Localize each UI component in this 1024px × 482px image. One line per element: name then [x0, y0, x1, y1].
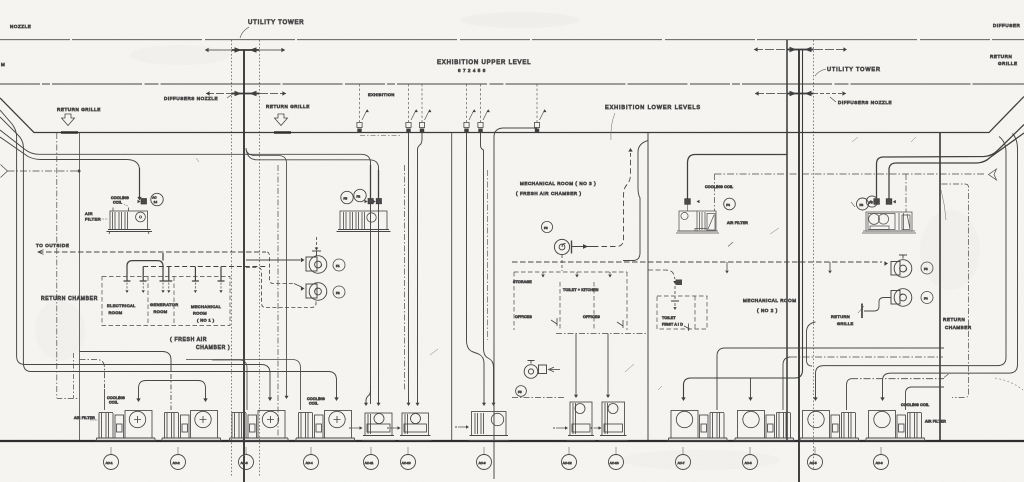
fan F6 dashed exhaust duct up through roof: [593, 153, 631, 247]
svg-text:COOLING: COOLING: [307, 397, 325, 401]
branch dashed line to toilet first aid: [648, 270, 675, 279]
dash-dot vertical x=484 upper: [487, 170, 489, 340]
fan F1 with housing: [306, 251, 327, 273]
fan F6 intake dashed stub from rooms: [561, 255, 563, 271]
svg-text:F2: F2: [357, 195, 361, 199]
fan F4 outlet duct down: [807, 322, 816, 366]
diffuser assembly at x=359.5: riser, box, arrow: [359, 84, 361, 122]
utility tower 1 center duct: [243, 50, 245, 482]
svg-text:F5: F5: [518, 390, 522, 394]
utility tower 1 left edge: [231, 40, 233, 477]
svg-text:F1: F1: [336, 264, 340, 268]
svg-text:DIFFUSERS NOZZLE: DIFFUSERS NOZZLE: [164, 96, 218, 101]
svg-text:AC-9: AC-9: [479, 461, 486, 465]
AC-9 supply duct from diffuser x=480.5: [481, 133, 494, 403]
upper AHU 4 inlet squares: [874, 199, 880, 205]
tower 2 lower crossbar with nozzle arrows: [755, 91, 846, 97]
partition wall x=648: [647, 133, 649, 441]
svg-text:14: 14: [154, 200, 158, 204]
outside air dash-dot line left with diamond arrow: [8, 170, 79, 172]
svg-text:AC-13: AC-13: [610, 461, 619, 465]
upper AHU AC-3r: cabinet: [676, 211, 719, 233]
toilet first aid dashed room: [657, 296, 707, 329]
header S5 to AC-3 filter: [212, 360, 247, 410]
svg-text:RETURN: RETURN: [943, 317, 965, 322]
AHU AC-2: cabinet, filter, coil, fan: [161, 411, 222, 441]
svg-text:MECHANICAL ROOM ( NO 3 ): MECHANICAL ROOM ( NO 3 ): [520, 181, 596, 186]
header R7 to AC-6 inlet: [906, 387, 945, 410]
room supply header (solid U with tee): [127, 261, 163, 281]
svg-text:GENERATOR: GENERATOR: [150, 302, 179, 307]
fan F5 tag: [516, 386, 527, 397]
room supply dashed header: [143, 266, 268, 268]
AHU AC-6: cabinet, fan, coil, filter: [865, 411, 926, 441]
header R2 dash-dot to AC-8 inlet: [790, 356, 943, 358]
AHU AC-1: cabinet, filter, coil, fan: [96, 411, 157, 441]
upper AHU AC-1: cabinet: [107, 208, 153, 235]
fan F3 with housing: [891, 255, 912, 277]
svg-text:M: M: [1, 62, 5, 67]
svg-text:OFFICES: OFFICES: [583, 315, 600, 319]
svg-text:F4: F4: [924, 297, 928, 301]
offices / toilet room dashed partitions: [514, 271, 627, 273]
diffuser assembly at x=537: riser, box, arrow: [536, 84, 538, 122]
return grille bar: [861, 304, 863, 319]
fan F6 tag: [541, 221, 552, 232]
svg-text:AIR FILTER: AIR FILTER: [925, 420, 946, 424]
svg-text:ELECTRICAL: ELECTRICAL: [107, 303, 136, 308]
right edge pencil leader: [941, 190, 946, 220]
fan F4 intake from return grille: [864, 298, 891, 312]
svg-text:TO OUTSIDE: TO OUTSIDE: [36, 243, 69, 248]
exhaust duct solid companion: [623, 141, 648, 261]
AC-12 supply drop: [575, 334, 577, 396]
svg-text:COIL: COIL: [113, 201, 122, 205]
svg-text:AC-2: AC-2: [173, 461, 180, 465]
svg-text:( FRESH AIR: ( FRESH AIR: [170, 337, 207, 343]
svg-text:OFFICES: OFFICES: [515, 315, 532, 319]
return chamber right dashed wall: [942, 184, 969, 398]
header R3 to AC-5 fan: [816, 137, 1007, 399]
AC-10 supply duct from diffuser x=422: [418, 133, 423, 403]
svg-text:UTILITY TOWER: UTILITY TOWER: [248, 20, 304, 26]
upper AHU 3 tag circle: [724, 198, 736, 210]
fan F4 tag: [921, 292, 933, 304]
partition wall x=451: [451, 133, 453, 441]
svg-text:TOILET + KITCHEN: TOILET + KITCHEN: [563, 288, 599, 292]
main dashed line to fan F3: [512, 261, 882, 263]
AHU AC-5: cabinet, fan, coil, filter: [799, 411, 860, 441]
lower level ceiling with sloped ends: [0, 97, 1024, 133]
fresh air chamber rooms dashed outline: [102, 277, 230, 326]
svg-text:MECHANICAL: MECHANICAL: [191, 304, 222, 309]
svg-text:F4: F4: [726, 203, 730, 207]
upper AHU AC-2: cabinet: [337, 211, 391, 232]
heavy feed segments into upper AHU 2: [371, 165, 379, 198]
utility tower 2 center duct: [798, 50, 800, 482]
dash-dot vertical x=278: [277, 165, 279, 437]
svg-text:( NO 2 ): ( NO 2 ): [757, 308, 778, 313]
AHU AC-8: cabinet, fan, coil, filter: [734, 411, 795, 441]
header R1 to AC-7 inlet: [717, 348, 944, 410]
svg-text:AC-11: AC-11: [365, 461, 374, 465]
svg-text:TOILET: TOILET: [662, 316, 676, 320]
svg-text:COOLING: COOLING: [111, 196, 129, 200]
svg-text:COIL: COIL: [309, 402, 318, 406]
to outside dashed exhaust line: [38, 251, 266, 253]
AC-11 supply pair lower ends: [366, 385, 371, 403]
roof line (upper level top): [0, 39, 1024, 41]
upper AHU 1 tag circle: [151, 193, 163, 205]
svg-text:CHAMBER ): CHAMBER ): [196, 345, 230, 351]
dash-dot vertical x=404.5: [404, 165, 406, 390]
return chamber left wall: [79, 133, 81, 441]
svg-text:AIR: AIR: [85, 211, 93, 216]
header R5 dash-dot to AC-5 inlet: [851, 378, 944, 380]
upper AHU 2 inlet squares: [368, 199, 373, 204]
tower 1 upper crossbar with nozzle arrows: [205, 47, 285, 53]
AC-13 supply drop: [607, 334, 609, 396]
svg-text:COOLING: COOLING: [107, 396, 125, 400]
svg-text:UTILITY TOWER: UTILITY TOWER: [827, 67, 881, 73]
tag circle AC-1: [104, 455, 119, 470]
fan F5 intake arrow: [550, 369, 560, 371]
fan F2 with housing: [306, 283, 327, 301]
small AHU AC-12: [567, 402, 595, 441]
dash-dot line into AC-12: [512, 397, 566, 399]
branch stub arrows on dashed line: [727, 262, 830, 270]
faint stray pencil marks: [196, 137, 916, 457]
svg-text:AC-1: AC-1: [106, 461, 113, 465]
AHU AC-7: cabinet, fan, coil, filter: [668, 411, 729, 441]
fan F2 dashed return loop to tower: [246, 268, 316, 308]
ground line: [0, 440, 1024, 442]
svg-text:EXHIBITION UPPER LEVEL: EXHIBITION UPPER LEVEL: [437, 60, 531, 66]
diffuser assembly at x=422: riser, box, arrow: [421, 84, 423, 122]
utility tower 2 right edge: [813, 40, 815, 470]
svg-text:AC-4: AC-4: [306, 461, 313, 465]
tower 2 upper crossbar with nozzle arrows: [754, 47, 847, 53]
svg-text:ROOM: ROOM: [109, 310, 123, 315]
svg-text:AC-10: AC-10: [402, 461, 411, 465]
svg-text:AC-12: AC-12: [563, 461, 572, 465]
svg-text:COOLING COIL: COOLING COIL: [705, 185, 733, 189]
tag circle AC-12: [562, 455, 577, 470]
small return marks in offices: [551, 318, 557, 326]
room supply drops with diffuser tees and arrows: [124, 267, 225, 282]
utility tower 1 right edge: [259, 40, 261, 477]
fan F3 tag: [921, 262, 933, 274]
svg-text:6 7 2 4 5 6: 6 7 2 4 5 6: [458, 68, 486, 73]
fan F2 tag: [333, 286, 345, 298]
svg-text:RETURN CHAMBER: RETURN CHAMBER: [41, 296, 98, 302]
header S3 dash-dot to AC-1 filter: [80, 360, 105, 389]
diffuser assembly at x=408.5: riser, box, arrow: [408, 84, 410, 122]
utility tower 2 left duct: [786, 40, 788, 441]
svg-text:RETURN: RETURN: [831, 314, 850, 319]
svg-text:AC-5: AC-5: [810, 461, 817, 465]
tag circle AC-11: [364, 455, 379, 470]
return chamber left dotted wall: [57, 133, 79, 399]
upper AHU 3 inlet square: [685, 199, 691, 205]
tag circle AC-4: [304, 455, 319, 470]
tag circle AC-6: [874, 455, 889, 470]
header R4 tee to AC-8 fan: [750, 378, 752, 398]
diffuser assembly at x=466.5: riser, box, arrow: [466, 84, 468, 122]
svg-text:EXHIBITION: EXHIBITION: [368, 92, 395, 97]
upper AHU 1 inlet square: [141, 199, 147, 205]
tower 1 lower crossbar with nozzle arrows: [206, 91, 286, 97]
svg-text:AC-3: AC-3: [241, 461, 248, 465]
partition wall x=940 (heavy): [939, 133, 941, 441]
fan F6 exhaust duct with arrow: [572, 246, 593, 248]
AHU AC-3: cabinet, filter, coil, fan: [229, 411, 290, 441]
svg-text:DIFFUSER: DIFFUSER: [993, 23, 1020, 28]
svg-text:GRILLE: GRILLE: [998, 61, 1018, 66]
svg-text:RETURN: RETURN: [990, 54, 1012, 59]
tag circle AC-13: [609, 455, 624, 470]
tag circle AC-5: [808, 455, 823, 470]
tag circle AC-2: [171, 455, 186, 470]
long duct from diffuser x=537 down shaft: [494, 128, 537, 479]
svg-text:FILTER: FILTER: [85, 217, 101, 222]
svg-text:RETURN GRILLE: RETURN GRILLE: [266, 104, 310, 109]
diffuser assembly at x=480.5: riser, box, arrow: [480, 84, 482, 122]
dash-dot connector below ceiling x=360-402: [360, 135, 402, 137]
upper AHU 4 tag circles: [857, 198, 869, 210]
svg-text:F6: F6: [860, 203, 864, 207]
AC-9 supply duct from diffuser x=466.5: [467, 133, 485, 403]
header S4 to AC-4 filter: [186, 360, 301, 411]
small AHU AC-10: [399, 413, 432, 441]
small AHU AC-13: [599, 402, 628, 441]
svg-text:F5: F5: [344, 197, 348, 201]
duct from tower1 to upper AHU 2: [246, 148, 379, 404]
svg-text:F2: F2: [336, 291, 340, 295]
header S1 to AC-2 filter: [80, 352, 172, 373]
upper AHU 4 ducts to right slope: [877, 125, 1024, 199]
header R4 from tower2 to AC-7/AC-8 fans: [684, 50, 803, 398]
svg-text:CHAMBER: CHAMBER: [945, 325, 972, 330]
fan F1 intake dashed stack with arrow: [316, 237, 318, 249]
svg-text:GRILLE: GRILLE: [837, 321, 854, 326]
svg-text:F3: F3: [869, 201, 873, 205]
AHU AC-4: cabinet, filter, coil, fan: [295, 411, 356, 441]
fan F4 with housing: [891, 289, 912, 307]
svg-text:COIL: COIL: [109, 401, 118, 405]
tag circle AC-9: [477, 455, 492, 470]
AC-12 AC-13 supply dash-dot header: [556, 333, 647, 335]
svg-text:AIR FILTER: AIR FILTER: [74, 416, 95, 420]
svg-text:AC-6: AC-6: [876, 461, 883, 465]
tag circle AC-10: [401, 455, 416, 470]
svg-text:( NO 1 ): ( NO 1 ): [197, 318, 215, 323]
AC-10 supply duct from diffuser x=408.5: [408, 133, 410, 403]
small AHU AC-9: [469, 412, 510, 441]
fan F1 tag: [333, 259, 345, 271]
svg-text:FIRST A I D: FIRST A I D: [662, 323, 683, 327]
header U-duct AC-1 fan to AC-2 fan: [139, 381, 206, 400]
dash-dot riser to upper AHU 3: [714, 174, 716, 211]
pencil squiggle near exhibition label: [611, 113, 615, 140]
dash-dot drop into upper AHU 4 filter: [905, 174, 907, 212]
fan F6 with discharge bar: [554, 239, 571, 254]
svg-text:DIFFUSERS NOZZLE: DIFFUSERS NOZZLE: [838, 100, 892, 105]
upper AHU 2 tag circles F5 F2: [341, 191, 353, 203]
fan F5 with housing: [524, 361, 546, 379]
header R6 to AC-6 fan: [883, 134, 1018, 399]
svg-text:NOZZLE: NOZZLE: [10, 24, 31, 29]
svg-text:ROOM: ROOM: [154, 309, 168, 314]
tag circle AC-7: [676, 455, 691, 470]
header H2 to AC-4 fan: [31, 372, 337, 399]
small AHU AC-11: [362, 413, 395, 441]
fan F1 feed line from tower: [246, 259, 301, 261]
fan F2 dashed supply branch: [267, 252, 294, 284]
svg-text:RETURN GRILLE: RETURN GRILLE: [57, 107, 101, 112]
svg-text:F6: F6: [544, 226, 548, 230]
svg-text:STORAGE: STORAGE: [513, 280, 532, 284]
left return duct bends: [0, 110, 25, 365]
svg-text:ROOM: ROOM: [193, 311, 207, 316]
outside air dash-dot line right with diamond arrow: [715, 173, 985, 175]
svg-text:MECHANICAL ROOM: MECHANICAL ROOM: [743, 298, 797, 303]
svg-text:EXHIBITION LOWER LEVELS: EXHIBITION LOWER LEVELS: [605, 105, 701, 111]
vertical duct x=286.5 from tower1: [246, 150, 287, 396]
tag circle AC-8: [743, 455, 758, 470]
svg-text:AIR FILTER: AIR FILTER: [727, 221, 748, 225]
upper/lower level dividing line: [0, 83, 1024, 85]
heavy feed segment into upper AHU 1: [139, 168, 141, 197]
upper AHU AC-4r: cabinet with twin blowers: [862, 212, 916, 233]
svg-text:COOLING COIL: COOLING COIL: [901, 403, 929, 407]
recirculation dash-dot riser x=73.5: [73, 353, 75, 398]
svg-text:( FRESH AIR CHAMBER ): ( FRESH AIR CHAMBER ): [516, 191, 582, 196]
header H1 to AC-3 fan: [25, 365, 270, 399]
side intake arrows into small units: [352, 427, 360, 429]
tag circle AC-3: [239, 455, 254, 470]
upper AHU 3 supply duct to tower 2: [688, 155, 788, 199]
